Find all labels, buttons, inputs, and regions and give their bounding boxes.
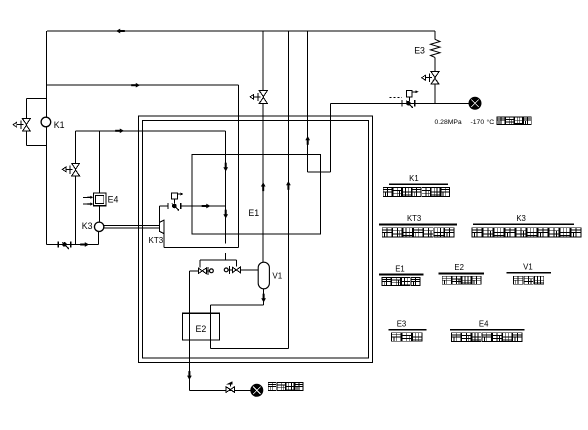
flow arrow down HP pass — [223, 163, 228, 172]
svg-text:E2: E2 — [196, 324, 207, 334]
control valve actuator — [406, 90, 418, 97]
battery limit connection cold nitrogen — [469, 97, 481, 109]
wire left vertical main x=46.5 — [46, 31, 48, 245]
flow arrow right on y=85 header — [131, 83, 140, 88]
compressor K1 — [41, 117, 51, 127]
cold box inner wall — [143, 120, 369, 358]
svg-text:K3: K3 — [82, 221, 93, 231]
legend E2 description — [442, 276, 451, 284]
E4 cooling water inlet arrow — [83, 196, 90, 198]
wire KT3 outlet — [163, 234, 165, 248]
turboexpander KT3 shaft double line — [104, 224, 160, 226]
flow arrow right on HP feed — [115, 128, 124, 133]
legend E4 underline — [450, 329, 525, 331]
JT valve right — [224, 266, 240, 274]
wire E2 return pass x=288.4 — [287, 31, 289, 349]
wire HP pass stub to JT manifold — [225, 253, 227, 260]
wire JT left valve to downleg — [189, 270, 198, 272]
wire product cold header jog — [308, 171, 331, 173]
wire valve to HP pass — [181, 205, 226, 207]
wire valve to product header — [434, 84, 436, 103]
svg-text:E2: E2 — [454, 263, 464, 272]
svg-text:E4: E4 — [479, 320, 489, 329]
label liquid nitrogen chinese — [268, 382, 276, 390]
wire K3 bypass branch x=75.4 — [74, 131, 76, 163]
instrument signal dashed line — [390, 96, 403, 98]
valve on K3 bypass — [62, 163, 79, 176]
flow arrow down HP pass lower — [223, 210, 228, 219]
legend E3 underline — [389, 329, 427, 331]
flow arrow right to K3 — [80, 242, 89, 247]
svg-text:V1: V1 — [523, 263, 533, 272]
legend E1 underline — [379, 274, 424, 276]
flow arrow up E2 return — [286, 181, 291, 190]
valve at KT3 inlet — [168, 203, 181, 211]
svg-text:V1: V1 — [272, 271, 282, 280]
wire E3 to valve — [434, 57, 436, 71]
svg-text:E3: E3 — [397, 320, 407, 329]
wire cold product header y=103.3 — [330, 102, 469, 104]
svg-text:KT3: KT3 — [407, 214, 421, 223]
svg-text:KT3: KT3 — [149, 236, 164, 245]
cold box outer wall — [139, 116, 373, 362]
battery limit connection liquid nitrogen — [251, 384, 263, 396]
flow arrow on KT3 line — [202, 204, 211, 209]
wire K1 discharge bottom line y=244.5 — [47, 244, 99, 246]
flow arrow up product pass — [305, 136, 310, 145]
wire riser to K3 inlet — [98, 231, 100, 244]
valve on vapour return — [250, 91, 267, 104]
legend E2 underline — [439, 272, 485, 274]
svg-text:E1: E1 — [248, 208, 259, 218]
legend E3 description — [392, 333, 402, 342]
wire V1 vapour return pass x=263.2 — [262, 31, 264, 91]
legend V1 underline — [506, 272, 551, 274]
JT valve left — [198, 267, 213, 275]
legend V1 description — [514, 276, 523, 284]
main heat exchanger E1 — [192, 155, 320, 234]
wire liquid line through subcooler x=189.4 — [188, 271, 190, 391]
wire KT3-return header y=85 — [47, 84, 239, 86]
control valve stem — [408, 97, 410, 101]
label cold nitrogen conditions — [435, 118, 495, 126]
svg-text:K3: K3 — [516, 214, 526, 223]
product drain valve — [226, 381, 235, 392]
aftercooler E4 — [93, 193, 106, 206]
svg-text:E1: E1 — [395, 264, 405, 273]
svg-text::: : — [492, 119, 494, 126]
valve below E3 — [422, 72, 439, 85]
legend K3 underline — [473, 223, 574, 225]
flow arrow left on top header — [116, 29, 125, 34]
KT3 valve actuator — [172, 193, 184, 200]
flow arrow up vapour return — [261, 182, 266, 191]
E4 cooling water outlet arrow — [83, 203, 90, 205]
legend K3 description — [472, 228, 482, 237]
heater E3 zigzag — [431, 39, 441, 57]
K1 bypass loop wires — [26, 97, 46, 99]
flow arrow down liquid product — [187, 371, 192, 380]
legend K1 underline — [389, 183, 448, 185]
svg-text:K1: K1 — [409, 174, 419, 183]
legend E1 description — [382, 278, 391, 286]
valve on K1 bypass — [13, 119, 30, 132]
legend KT3 description — [382, 228, 392, 237]
wire HP feed header y=130.8 into cold box — [75, 130, 225, 132]
wire KT3 return pass x=238.5 — [238, 85, 240, 247]
separator V1 — [258, 262, 269, 289]
svg-text:E4: E4 — [108, 195, 119, 205]
wire top suction header y=31 — [47, 30, 435, 32]
legend K1 description — [383, 187, 392, 196]
legend KT3 underline — [379, 223, 457, 225]
svg-text:-170: -170 — [471, 119, 485, 126]
legend E4 description — [452, 333, 461, 342]
wire KT3 inlet from valve — [158, 206, 160, 222]
turboexpander KT3 cone — [160, 220, 165, 233]
subcooler E2 — [182, 313, 219, 340]
wire E2 cold return to E1 — [210, 348, 288, 350]
svg-text:E3: E3 — [414, 46, 425, 56]
wire product pass x=307.7 — [307, 31, 309, 172]
JT manifold right stem — [236, 260, 238, 266]
heater E3 branch from top header — [434, 31, 436, 39]
flow arrow down from V1 — [261, 294, 266, 303]
JT manifold left stem — [199, 260, 201, 267]
wire liquid product bottom line — [189, 390, 251, 392]
svg-text:0.28MPa: 0.28MPa — [435, 119, 462, 126]
wire HP pass down x=225.5 (upper) — [225, 131, 227, 244]
wire E4 to HP header — [99, 131, 101, 193]
svg-text:K1: K1 — [54, 120, 65, 130]
label cold nitrogen chinese — [497, 117, 505, 125]
wire K3 discharge to E4 — [99, 206, 101, 222]
wire JT right valve to separator V1 — [240, 269, 258, 271]
valve on K1 discharge line — [58, 241, 71, 249]
wire V1 liquid outlet — [263, 289, 265, 305]
booster K3 — [94, 222, 103, 231]
JT manifold top bar — [200, 259, 237, 261]
control valve on product line — [402, 100, 415, 108]
